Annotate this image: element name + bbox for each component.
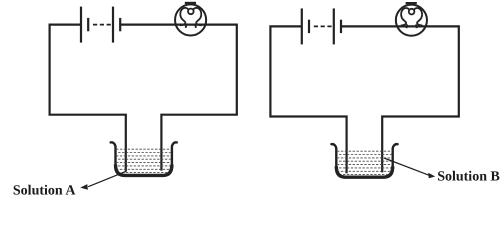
wire: left loop: [50, 25, 126, 172]
lamp filament left shoulder (right): [401, 8, 410, 25]
wire: left loop (right): [270, 26, 346, 173]
solution A dashed liquid: [114, 149, 172, 172]
lamp filament right shoulder: [193, 8, 202, 25]
lamp filament left shoulder: [180, 8, 189, 25]
beaker bottom thick: [116, 165, 172, 176]
lamp cap bar: [185, 2, 196, 4]
svg-text:Solution B: Solution B: [437, 170, 500, 185]
arrow to Solution B label: [384, 158, 435, 178]
battery dashed middle cells (right): [314, 25, 332, 27]
beaker bottom thick (right): [336, 166, 392, 177]
battery cell plate short 2: [119, 18, 121, 31]
lamp cap bar (right): [406, 2, 417, 4]
wire: right loop (right): [341, 26, 459, 172]
lamp filament loop ring (right): [409, 9, 415, 15]
lamp bulb circle: [175, 4, 206, 35]
lamp filament support nub left (right): [406, 24, 409, 28]
lamp bulb circle (right): [396, 5, 427, 36]
lamp filament right shoulder (right): [414, 8, 423, 25]
lamp filament loop ring: [188, 9, 194, 15]
battery cell plate short 1: [87, 18, 89, 31]
lamp filament support nub left: [185, 24, 188, 28]
battery cell plate long 1 (right): [301, 8, 303, 44]
beaker outline: [111, 142, 177, 175]
svg-text:Solution A: Solution A: [13, 183, 77, 198]
lamp filament support nub right: [194, 24, 197, 28]
lamp filament support nub right (right): [415, 24, 418, 28]
solution B dashed liquid: [335, 151, 393, 174]
battery cell plate long 2: [112, 7, 114, 43]
left circuit: [50, 3, 237, 176]
right circuit: [270, 3, 458, 177]
wire: right loop: [120, 25, 237, 171]
beaker outline (right): [331, 144, 397, 177]
battery cell plate short 2 (right): [340, 20, 342, 33]
arrow to Solution A label: [80, 171, 126, 189]
battery cell plate short 1 (right): [308, 20, 310, 33]
battery dashed middle cells: [93, 24, 111, 26]
battery cell plate long 2 (right): [333, 8, 335, 44]
battery cell plate long 1: [80, 7, 82, 43]
